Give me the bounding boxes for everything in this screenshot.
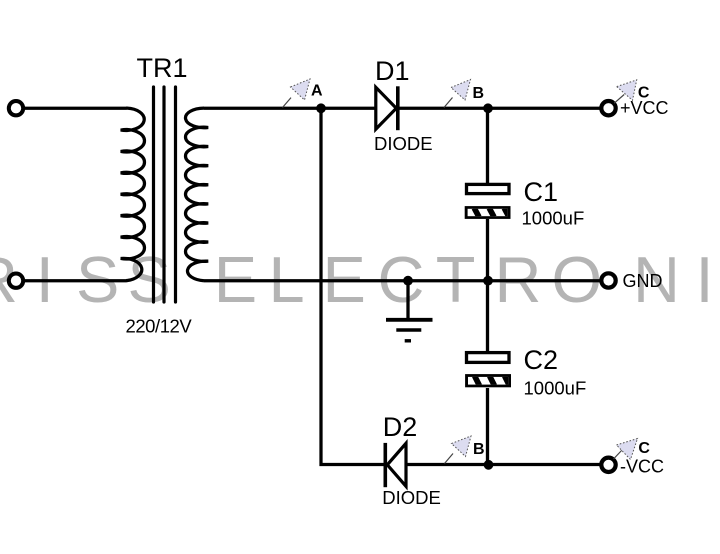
svg-text:220/12V: 220/12V [126, 316, 193, 337]
wire D2 anode to -VCC terminal [405, 463, 602, 466]
junction ground tap [403, 276, 413, 286]
svg-text:C: C [638, 85, 650, 102]
wire C2 to -VCC node [486, 388, 489, 465]
diode D1 [376, 86, 398, 130]
node marker C (at -VCC) [614, 439, 651, 460]
junction capacitor midpoint at GND [483, 276, 493, 286]
svg-text:A: A [311, 83, 323, 100]
wire node A vertical drop [321, 108, 384, 464]
diode D2 [385, 443, 406, 487]
wire C1 to GND rail [486, 219, 489, 281]
capacitor C1 [283, 79, 651, 470]
svg-text:1000uF: 1000uF [522, 208, 585, 229]
svg-text:C2: C2 [524, 345, 559, 375]
svg-text:D1: D1 [375, 56, 410, 86]
transformer TR1 secondary winding [185, 108, 208, 281]
wire node B to C1 [486, 108, 489, 184]
junction node A [316, 103, 326, 113]
wire bottom-left: terminal to primary bottom [22, 279, 127, 282]
svg-text:GND: GND [623, 271, 663, 291]
svg-text:I: I [696, 243, 714, 316]
node marker B (at D2) [445, 436, 485, 464]
watermark text "RISS ELECTRONI" [0, 243, 714, 316]
svg-text:D2: D2 [383, 412, 418, 442]
wire GND rail to C2 [486, 281, 489, 352]
node marker C (at +VCC) [614, 80, 650, 103]
transformer TR1 primary winding [121, 108, 145, 281]
svg-text:DIODE: DIODE [382, 487, 441, 508]
junction node B [483, 103, 493, 113]
wire top-left: terminal to primary [22, 107, 127, 110]
terminal +VCC [601, 101, 615, 115]
wire top: secondary to +VCC terminal [204, 107, 602, 110]
svg-text:C: C [638, 440, 650, 457]
terminal GND [601, 273, 615, 287]
svg-text:TR1: TR1 [137, 53, 188, 83]
node marker B (at D1 cathode) [444, 80, 484, 108]
ground [386, 281, 433, 341]
svg-text:-VCC: -VCC [620, 456, 664, 476]
terminal input top-left [9, 101, 23, 115]
svg-text:B: B [473, 85, 485, 102]
svg-text:C1: C1 [524, 177, 559, 207]
svg-text:B: B [473, 441, 485, 458]
wire GND rail: secondary bottom to GND terminal [204, 279, 602, 282]
terminal -VCC [601, 458, 615, 472]
svg-text:DIODE: DIODE [374, 133, 433, 154]
node marker A [283, 79, 324, 108]
capacitor C2 [283, 79, 651, 470]
junction -VCC node [484, 460, 494, 470]
transformer TR1 core [154, 87, 176, 302]
svg-text:1000uF: 1000uF [524, 378, 587, 399]
terminal input bottom-left [9, 274, 23, 288]
